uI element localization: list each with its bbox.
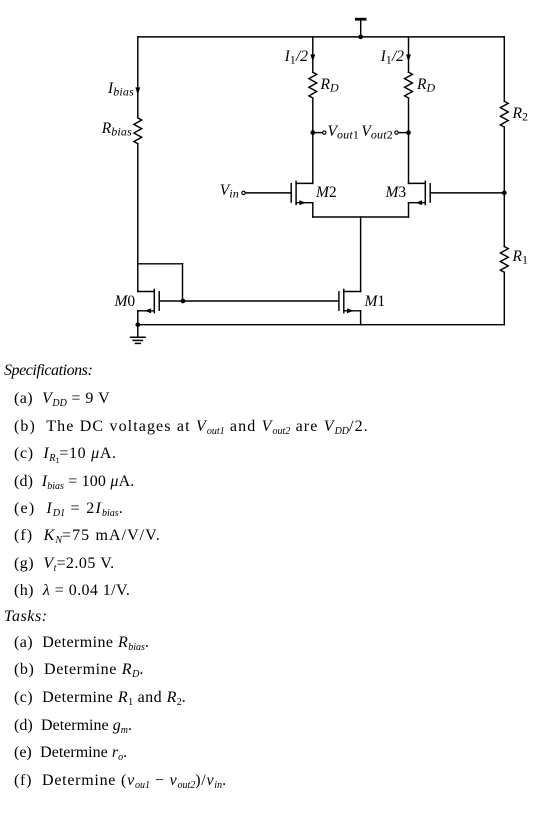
- label Vout1: [328, 124, 360, 141]
- node ground junction: [135, 322, 140, 327]
- wire M1 source down to ground rail: [360, 311, 362, 325]
- label R1: [513, 249, 529, 266]
- label M3: [386, 185, 407, 201]
- wire right rail bottom segment: [503, 272, 505, 324]
- wire M3 drain up to Vout2: [408, 133, 410, 184]
- wire left rail upper segment: [137, 37, 139, 118]
- label Ibias: [108, 81, 134, 98]
- wire Vout1 stub: [313, 132, 323, 134]
- wire bottom rail: [138, 324, 505, 326]
- wire RD right to Vout2 node: [408, 98, 410, 133]
- wire M2 gate lead: [245, 192, 291, 194]
- node M3 gate R1R2 junction: [502, 191, 507, 196]
- wire right rail top segment: [503, 37, 505, 101]
- label R2: [513, 106, 529, 123]
- node Vout1 junction: [310, 130, 315, 135]
- node VDD junction: [358, 35, 363, 40]
- node M0 gate-drain junction: [181, 299, 186, 304]
- transistor M2 (NMOS diff pair left): [291, 181, 313, 205]
- node Vout2 junction: [406, 130, 411, 135]
- wire M0 source down to ground: [137, 311, 139, 325]
- wire Vout2 stub: [398, 132, 408, 134]
- wire common source rail M2/M3: [313, 216, 409, 218]
- label I1/2 right: [381, 49, 404, 66]
- transistor M1 (NMOS current mirror output): [339, 289, 361, 313]
- wire M0 gate to M1 gate: [183, 300, 339, 302]
- label M1: [365, 294, 386, 310]
- wire left RD branch from rail: [312, 37, 314, 72]
- wire M2 source down: [312, 203, 314, 217]
- heading Tasks: [4, 609, 48, 625]
- resistor Rbias: [134, 118, 142, 144]
- resistor RD right: [405, 72, 413, 98]
- heading Specifications: [4, 363, 92, 379]
- label M0: [115, 294, 136, 310]
- wire top supply rail: [138, 36, 505, 38]
- wire right RD branch from rail: [408, 37, 410, 72]
- VDD supply symbol: [356, 19, 365, 37]
- resistor R1: [500, 247, 508, 273]
- current arrow I1/2 right: [406, 54, 411, 62]
- wire diode-connect loop horizontal: [138, 263, 183, 265]
- terminal Vout1 open circle: [323, 131, 326, 134]
- label RD left: [321, 77, 339, 94]
- wire left rail below Rbias down to M0 drain lead: [137, 144, 139, 292]
- wire M3 gate lead to right rail: [430, 192, 504, 194]
- wire M3 source down: [408, 203, 410, 217]
- wire RD left to Vout1 node: [312, 98, 314, 133]
- wire M1 drain up to tail node: [360, 217, 362, 292]
- label Rbias: [102, 121, 132, 138]
- terminal Vin open circle: [242, 191, 245, 194]
- current arrow Ibias: [135, 87, 140, 95]
- transistor M3 (NMOS diff pair right, mirrored): [409, 181, 431, 205]
- label I1/2 left: [285, 49, 308, 66]
- label Vout2: [361, 124, 393, 141]
- wire right rail between R2 and R1: [503, 127, 505, 247]
- label M2: [316, 185, 337, 201]
- label Vin: [220, 183, 239, 200]
- transistor M0 (mirrored NMOS, diode-connected): [138, 289, 183, 313]
- terminal Vout2 open circle: [395, 131, 398, 134]
- wire diode-connect loop vertical: [182, 264, 184, 301]
- current arrow I1/2 left: [310, 54, 315, 62]
- wire M2 drain up to Vout1: [312, 133, 314, 184]
- label RD right: [417, 77, 435, 94]
- resistor RD left: [309, 72, 317, 98]
- ground symbol: [131, 325, 146, 344]
- resistor R2: [500, 101, 508, 127]
